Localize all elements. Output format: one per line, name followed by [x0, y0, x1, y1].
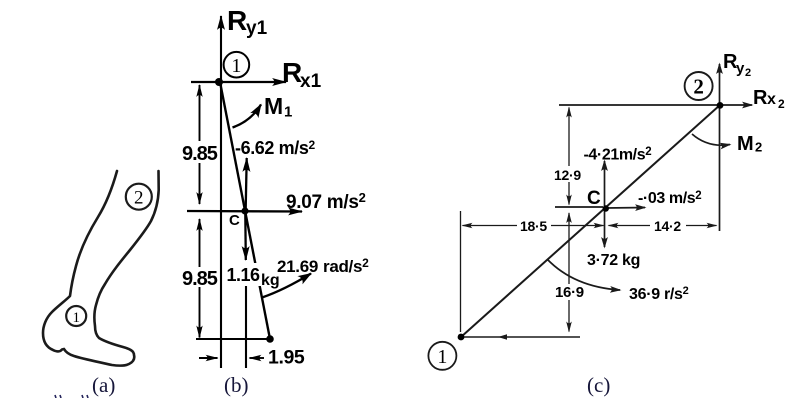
svg-text:2: 2	[134, 188, 144, 209]
svg-text:M: M	[737, 133, 754, 155]
svg-text:1.16: 1.16	[227, 265, 261, 285]
svg-text:y1: y1	[246, 18, 268, 39]
svg-text:2: 2	[745, 67, 751, 79]
svg-text:21.69: 21.69	[277, 257, 318, 276]
svg-text:36·9 r/s2: 36·9 r/s2	[629, 285, 689, 303]
svg-text:2: 2	[693, 75, 704, 99]
svg-text:-4·21m/s2: -4·21m/s2	[584, 146, 652, 164]
svg-text:M: M	[264, 93, 283, 119]
svg-text:rad/s2: rad/s2	[323, 256, 369, 276]
svg-text:1: 1	[72, 310, 80, 326]
svg-text:16·9: 16·9	[555, 284, 584, 301]
svg-text:9.85: 9.85	[182, 268, 218, 290]
svg-text:2: 2	[755, 140, 762, 155]
svg-text:1: 1	[284, 104, 292, 121]
svg-text:C: C	[587, 188, 601, 209]
svg-text:9.85: 9.85	[182, 143, 218, 165]
svg-text:y: y	[736, 60, 745, 77]
svg-text:(b): (b)	[224, 373, 249, 397]
svg-text:(a): (a)	[92, 373, 115, 397]
svg-text:x1: x1	[300, 71, 322, 92]
svg-text:x: x	[767, 91, 776, 108]
svg-text:C: C	[229, 212, 240, 229]
svg-text:3·72 kg: 3·72 kg	[587, 252, 640, 269]
svg-text:1.95: 1.95	[268, 347, 305, 369]
svg-text:-6.62 m/s2: -6.62 m/s2	[235, 138, 315, 158]
svg-text:1: 1	[231, 55, 241, 77]
svg-text:14·2: 14·2	[654, 218, 681, 234]
svg-text:R: R	[227, 5, 247, 36]
svg-text:9.07 m/s2: 9.07 m/s2	[286, 190, 366, 213]
svg-text:18·5: 18·5	[520, 218, 547, 234]
svg-text:2: 2	[778, 97, 785, 111]
svg-text:-·03 m/s2: -·03 m/s2	[638, 190, 701, 207]
svg-text:1: 1	[437, 346, 447, 368]
svg-text:(c): (c)	[587, 373, 610, 397]
svg-text:R: R	[753, 87, 768, 109]
svg-text:12·9: 12·9	[554, 167, 581, 183]
